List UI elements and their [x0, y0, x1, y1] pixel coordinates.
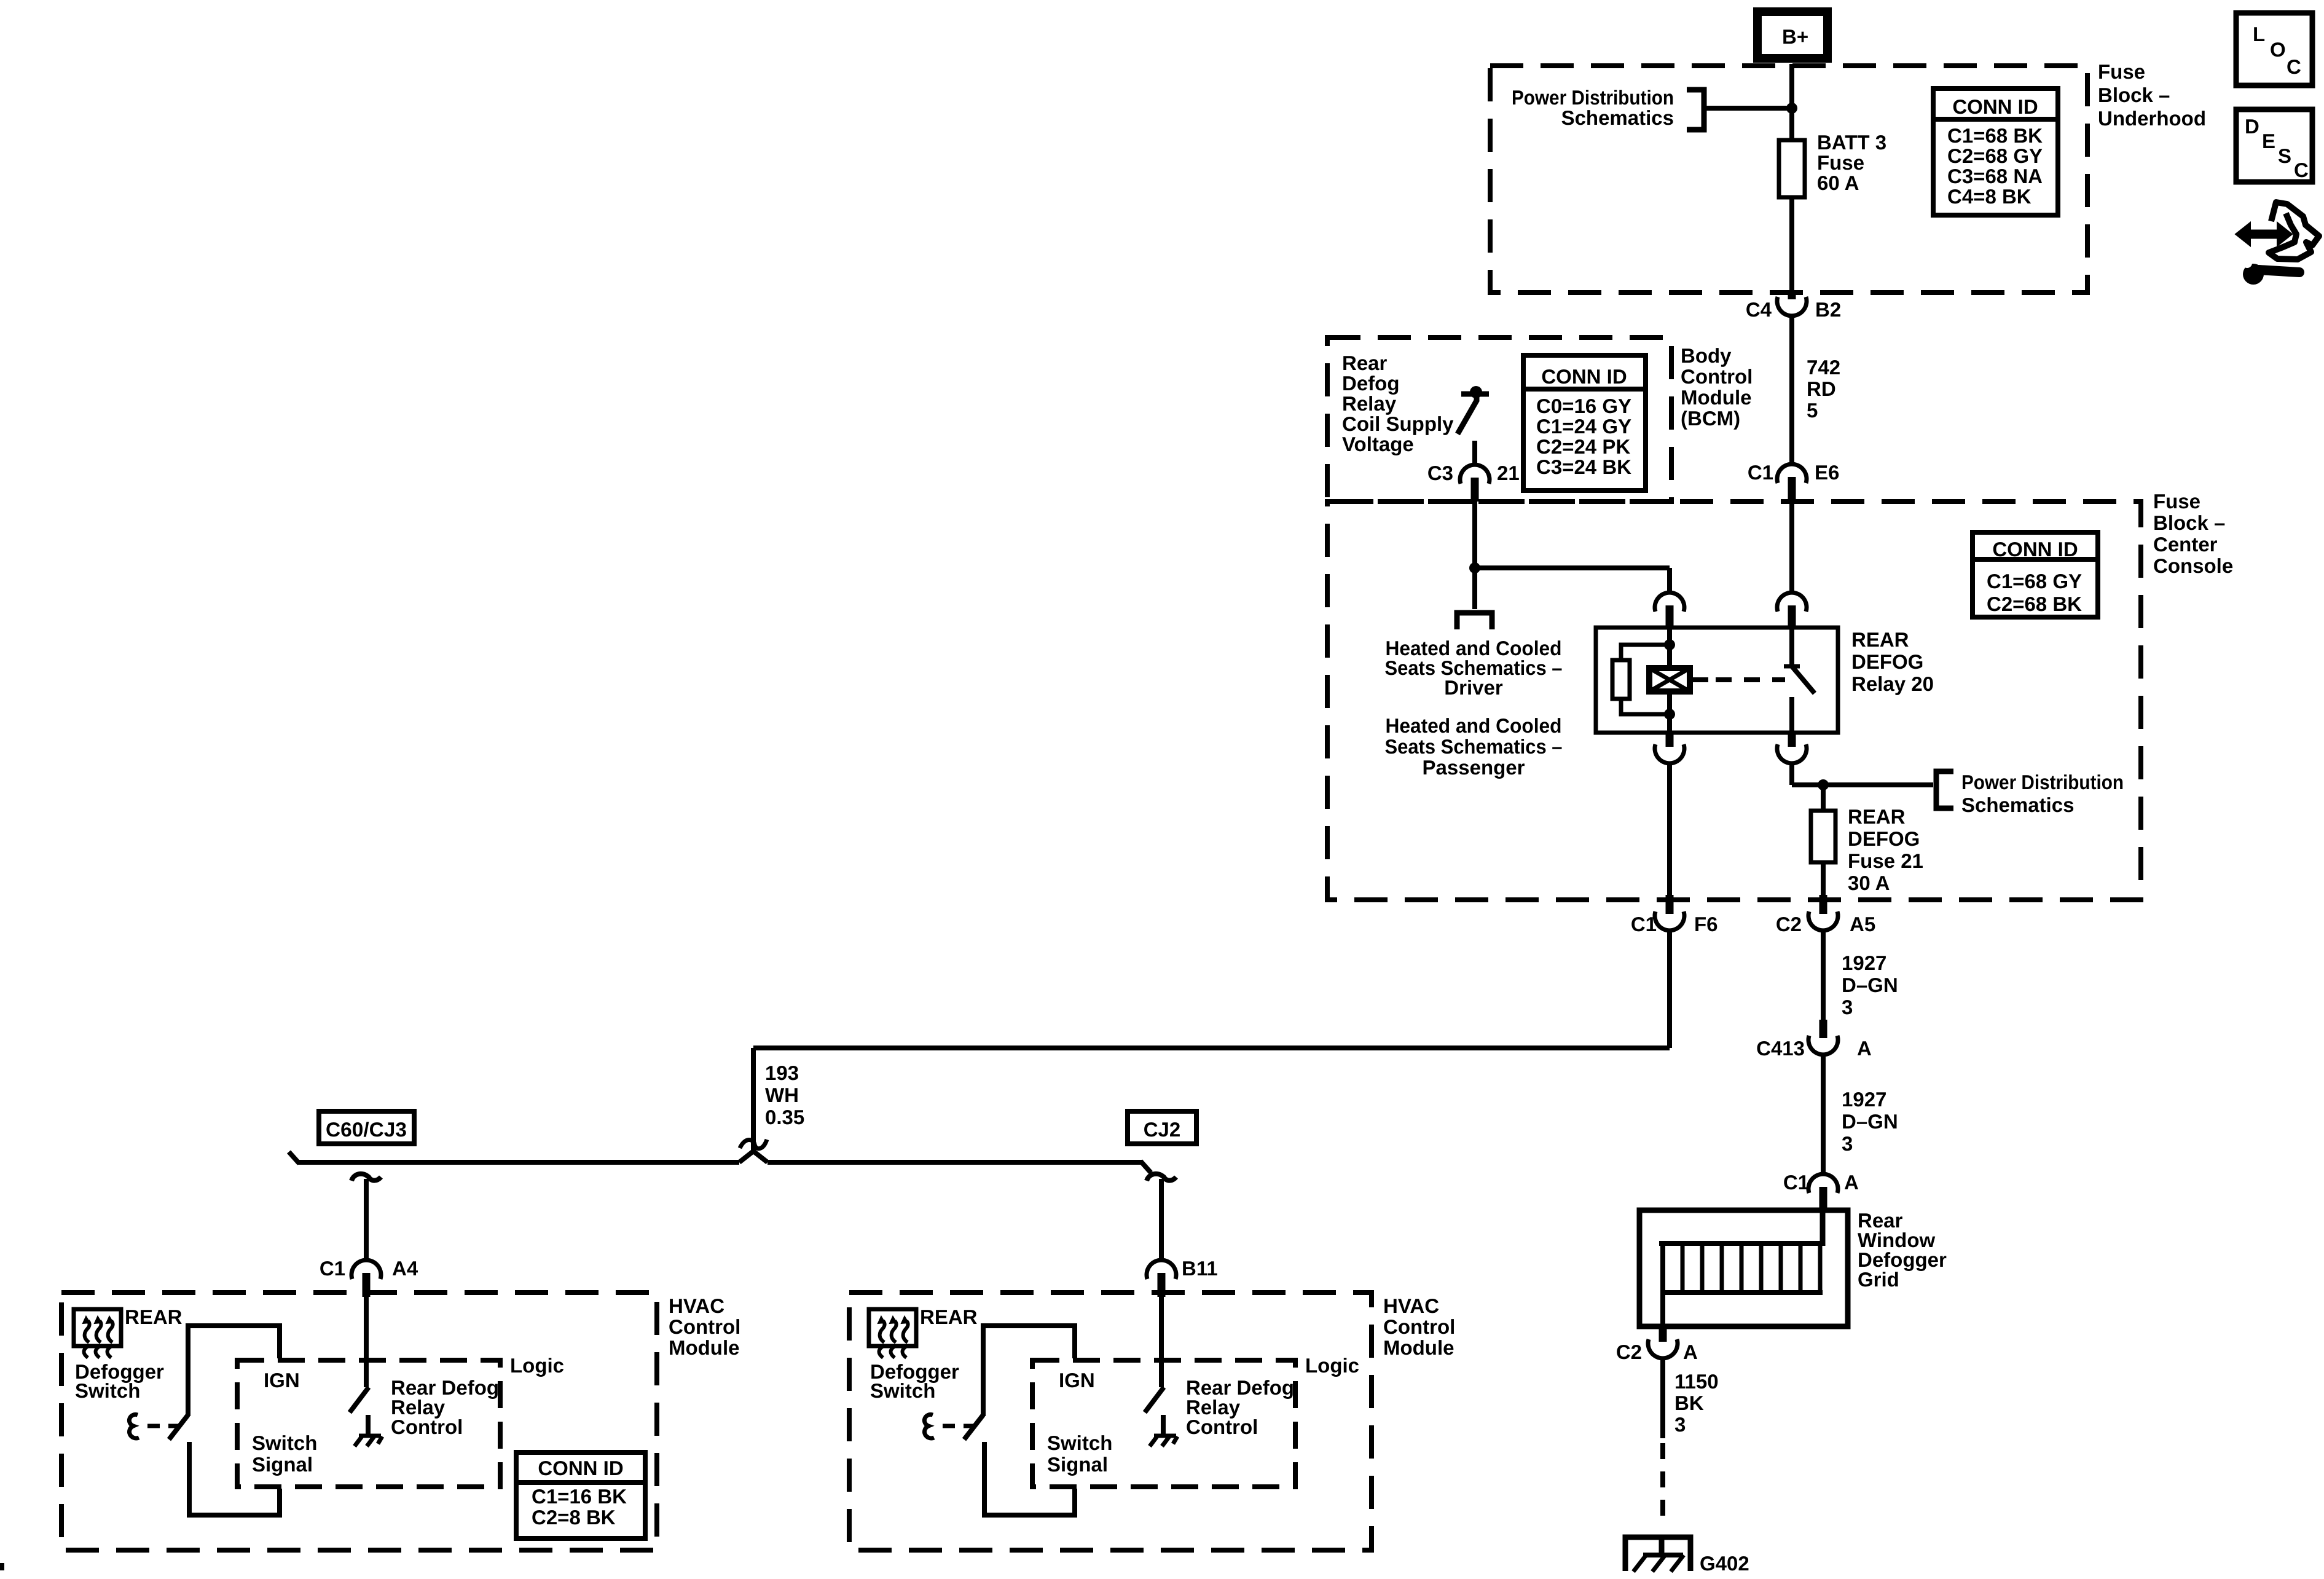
- svg-text:Block –: Block –: [2153, 511, 2225, 534]
- svg-text:C60/CJ3: C60/CJ3: [326, 1118, 407, 1141]
- svg-text:RD: RD: [1807, 377, 1836, 400]
- svg-text:A: A: [1683, 1341, 1698, 1363]
- svg-text:3: 3: [1842, 996, 1853, 1018]
- svg-text:IGN: IGN: [1059, 1369, 1095, 1392]
- svg-text:HVAC: HVAC: [669, 1294, 724, 1317]
- svg-text:Fuse 21: Fuse 21: [1848, 849, 1923, 872]
- svg-text:Control: Control: [391, 1416, 463, 1438]
- svg-text:1927: 1927: [1842, 1088, 1886, 1111]
- svg-text:30 A: 30 A: [1848, 872, 1890, 894]
- svg-text:Switch: Switch: [252, 1431, 317, 1454]
- svg-text:C1=16 BK: C1=16 BK: [532, 1485, 627, 1508]
- svg-text:A5: A5: [1850, 913, 1875, 935]
- svg-text:C: C: [2294, 159, 2309, 181]
- svg-text:Center: Center: [2153, 533, 2218, 556]
- svg-text:CONN ID: CONN ID: [1541, 365, 1627, 388]
- svg-text:193: 193: [765, 1061, 799, 1084]
- svg-text:Control: Control: [1383, 1315, 1455, 1338]
- svg-text:REAR: REAR: [125, 1305, 183, 1328]
- svg-text:Schematics: Schematics: [1961, 793, 2074, 816]
- svg-text:D: D: [2245, 115, 2259, 138]
- svg-text:DEFOG: DEFOG: [1848, 827, 1920, 850]
- svg-text:WH: WH: [765, 1084, 799, 1106]
- svg-text:Defog: Defog: [1342, 372, 1400, 395]
- svg-text:Logic: Logic: [510, 1354, 564, 1377]
- svg-text:3: 3: [1842, 1132, 1853, 1155]
- svg-text:C2=68 BK: C2=68 BK: [1987, 593, 2082, 615]
- svg-text:Passenger: Passenger: [1423, 756, 1525, 779]
- svg-text:Underhood: Underhood: [2098, 107, 2206, 130]
- svg-text:S: S: [2278, 144, 2291, 167]
- svg-text:IGN: IGN: [264, 1369, 300, 1392]
- svg-text:C1=68 BK: C1=68 BK: [1947, 124, 2043, 147]
- svg-text:CONN ID: CONN ID: [1952, 95, 2038, 118]
- svg-text:CJ2: CJ2: [1144, 1118, 1181, 1141]
- svg-text:C1: C1: [1748, 461, 1773, 484]
- svg-text:Body: Body: [1681, 344, 1732, 367]
- svg-text:1150: 1150: [1674, 1370, 1719, 1393]
- svg-text:CONN ID: CONN ID: [538, 1457, 623, 1479]
- svg-text:Control: Control: [669, 1315, 740, 1338]
- svg-text:Switch: Switch: [1047, 1431, 1112, 1454]
- svg-text:E: E: [2262, 130, 2275, 152]
- svg-text:Console: Console: [2153, 554, 2233, 577]
- svg-text:BK: BK: [1674, 1392, 1704, 1414]
- svg-text:Logic: Logic: [1305, 1354, 1359, 1377]
- svg-text:Fuse: Fuse: [2098, 60, 2145, 83]
- svg-text:C3=24 BK: C3=24 BK: [1536, 455, 1631, 478]
- svg-text:BATT 3: BATT 3: [1817, 131, 1886, 154]
- svg-text:C2=68 GY: C2=68 GY: [1947, 144, 2043, 167]
- svg-text:CONN ID: CONN ID: [1992, 538, 2078, 561]
- svg-text:F6: F6: [1694, 913, 1718, 935]
- svg-text:E6: E6: [1815, 461, 1839, 484]
- svg-text:Schematics: Schematics: [1561, 106, 1674, 129]
- svg-text:Heated and Cooled: Heated and Cooled: [1386, 714, 1562, 737]
- svg-text:O: O: [2270, 38, 2286, 61]
- svg-text:C1=68 GY: C1=68 GY: [1987, 570, 2082, 593]
- svg-text:1927: 1927: [1842, 951, 1886, 974]
- svg-text:HVAC: HVAC: [1383, 1294, 1439, 1317]
- svg-text:C3=68 NA: C3=68 NA: [1947, 165, 2043, 187]
- svg-text:Power Distribution: Power Distribution: [1961, 771, 2124, 793]
- svg-text:Module: Module: [1681, 386, 1751, 409]
- svg-text:REAR: REAR: [1851, 628, 1909, 651]
- svg-text:Signal: Signal: [1047, 1453, 1108, 1476]
- svg-text:Module: Module: [669, 1336, 739, 1359]
- svg-text:C413: C413: [1756, 1037, 1805, 1060]
- svg-text:B2: B2: [1815, 298, 1841, 321]
- svg-text:C1=24 GY: C1=24 GY: [1536, 415, 1631, 438]
- svg-text:REAR: REAR: [1848, 805, 1906, 828]
- svg-text:C4: C4: [1746, 298, 1772, 321]
- svg-text:60 A: 60 A: [1817, 171, 1859, 194]
- svg-text:Driver: Driver: [1444, 676, 1503, 699]
- svg-text:L: L: [2253, 23, 2265, 45]
- svg-text:B+: B+: [1782, 25, 1808, 48]
- svg-text:C2=8 BK: C2=8 BK: [532, 1506, 616, 1529]
- svg-text:C0=16 GY: C0=16 GY: [1536, 395, 1631, 417]
- svg-text:Block –: Block –: [2098, 84, 2170, 106]
- svg-text:742: 742: [1807, 356, 1840, 379]
- svg-text:Switch: Switch: [75, 1379, 140, 1402]
- svg-text:Relay 20: Relay 20: [1851, 672, 1934, 695]
- svg-text:5: 5: [1807, 399, 1818, 422]
- svg-text:Power Distribution: Power Distribution: [1512, 86, 1674, 109]
- svg-text:A: A: [1857, 1037, 1872, 1060]
- svg-text:(BCM): (BCM): [1681, 407, 1740, 430]
- svg-text:D–GN: D–GN: [1842, 974, 1898, 996]
- svg-text:0.35: 0.35: [765, 1106, 804, 1128]
- svg-text:C2: C2: [1776, 913, 1802, 935]
- svg-text:Switch: Switch: [870, 1379, 935, 1402]
- svg-text:Fuse: Fuse: [1817, 151, 1864, 174]
- svg-text:REAR: REAR: [920, 1305, 978, 1328]
- svg-text:C3: C3: [1427, 462, 1453, 484]
- svg-text:Fuse: Fuse: [2153, 490, 2200, 513]
- svg-text:3: 3: [1674, 1413, 1686, 1436]
- svg-text:C1: C1: [320, 1257, 345, 1280]
- svg-text:C1: C1: [1631, 913, 1657, 935]
- svg-text:C4=8 BK: C4=8 BK: [1947, 185, 2032, 208]
- svg-text:C1: C1: [1783, 1171, 1809, 1194]
- svg-text:Signal: Signal: [252, 1453, 313, 1476]
- svg-text:C2: C2: [1616, 1341, 1642, 1363]
- svg-text:Voltage: Voltage: [1342, 433, 1414, 455]
- svg-text:DEFOG: DEFOG: [1851, 650, 1923, 673]
- svg-text:G402: G402: [1700, 1552, 1749, 1575]
- svg-text:D–GN: D–GN: [1842, 1110, 1898, 1133]
- svg-text:Coil Supply: Coil Supply: [1342, 412, 1454, 435]
- svg-text:C: C: [2287, 55, 2301, 78]
- svg-text:Grid: Grid: [1858, 1268, 1899, 1291]
- svg-text:Rear: Rear: [1342, 352, 1388, 374]
- svg-text:A: A: [1844, 1171, 1859, 1194]
- svg-text:C2=24 PK: C2=24 PK: [1536, 435, 1630, 458]
- svg-text:B11: B11: [1182, 1257, 1218, 1280]
- svg-text:A4: A4: [392, 1257, 418, 1280]
- svg-text:Control: Control: [1681, 365, 1753, 388]
- svg-text:Control: Control: [1186, 1416, 1258, 1438]
- svg-text:Relay: Relay: [1342, 392, 1397, 415]
- svg-text:Module: Module: [1383, 1336, 1454, 1359]
- svg-text:Seats Schematics –: Seats Schematics –: [1385, 735, 1563, 758]
- svg-text:21: 21: [1497, 462, 1520, 484]
